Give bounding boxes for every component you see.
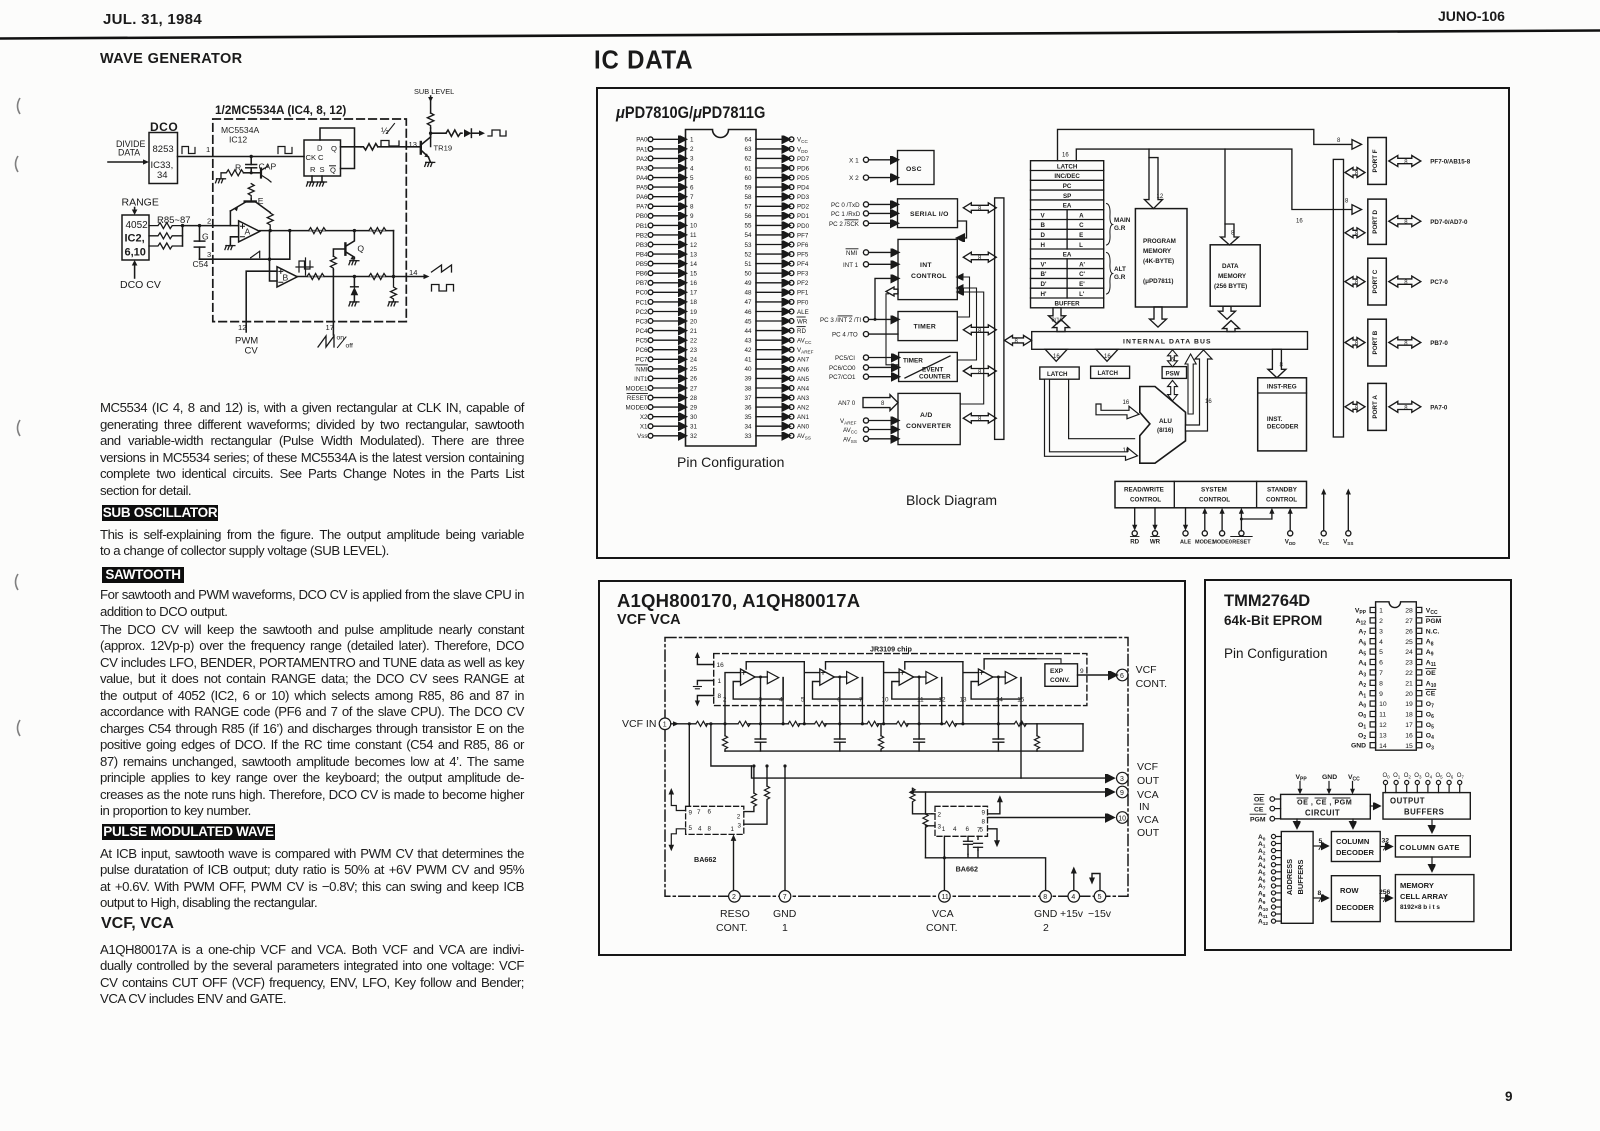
ground R S pins <box>307 176 327 186</box>
wire vca in line <box>911 791 1113 793</box>
pin 3 PA2 <box>636 156 694 163</box>
svg-text:14: 14 <box>409 268 417 277</box>
bus arrow to PORT C <box>1345 277 1365 287</box>
svg-text:2: 2 <box>207 217 211 226</box>
ladder shunt resistor 1 <box>722 724 727 751</box>
svg-text:CONTROL: CONTROL <box>1266 497 1297 504</box>
row decoder to memory arrow 256 <box>1379 889 1391 902</box>
svg-text:6: 6 <box>1120 673 1124 680</box>
svg-text:25: 25 <box>1405 639 1413 646</box>
svg-text:PORT F: PORT F <box>1372 149 1379 172</box>
latch1 wire mid <box>1069 379 1135 439</box>
svg-text:8: 8 <box>1404 280 1408 286</box>
svg-text:1: 1 <box>782 922 788 934</box>
pin circle 3 VCF OUT <box>1117 772 1129 784</box>
svg-text:SYSTEM: SYSTEM <box>1201 487 1227 494</box>
eprom pin 10 A0 <box>1358 701 1386 710</box>
svg-text:NMI: NMI <box>846 250 858 257</box>
svg-text:X 2: X 2 <box>849 175 859 182</box>
IC DATA heading <box>594 46 693 76</box>
svg-text:VCC: VCC <box>1318 539 1329 547</box>
PC0/TxD input <box>831 202 898 209</box>
wire vcf out line <box>752 766 1114 778</box>
svg-text:256: 256 <box>1379 889 1391 896</box>
svg-text:57: 57 <box>744 204 752 211</box>
resistor A out 1 <box>309 228 326 234</box>
svg-text:16: 16 <box>1104 354 1111 360</box>
left peripheral bus bar <box>995 198 1004 440</box>
resistor Q to opto <box>361 144 378 150</box>
wire Qbar feedback loop <box>320 128 355 169</box>
AVss input <box>843 436 898 444</box>
svg-text:PSW: PSW <box>1166 370 1180 377</box>
resistor E collector feedback <box>267 213 273 229</box>
stage 2 output column wire <box>861 678 864 726</box>
svg-text:10: 10 <box>882 697 890 704</box>
BA662 vca dashed box <box>935 806 988 836</box>
reso right resistor upper <box>744 766 757 812</box>
JR3109 pin numbers <box>723 697 1025 704</box>
svg-text:TIMER: TIMER <box>914 324 937 331</box>
square glyph after DCO <box>182 147 195 154</box>
pin circle 7 GND1 <box>779 891 791 903</box>
svg-text:PORT A: PORT A <box>1372 395 1379 419</box>
INT CONTROL box <box>898 239 957 299</box>
svg-text:PF6: PF6 <box>797 242 809 249</box>
sawtooth on-off glyph <box>318 335 353 350</box>
svg-text:39: 39 <box>744 376 752 383</box>
page number <box>1505 1089 1513 1104</box>
svg-text:3: 3 <box>759 697 763 704</box>
svg-text:INC/DEC: INC/DEC <box>1054 173 1080 180</box>
NMI input <box>846 249 898 257</box>
svg-text:14: 14 <box>1379 743 1387 750</box>
svg-text:12: 12 <box>238 323 246 332</box>
svg-text:V': V' <box>1041 261 1047 268</box>
svg-text:C: C <box>1079 222 1084 229</box>
svg-text:5: 5 <box>801 697 805 704</box>
eprom pin 7 A3 <box>1358 670 1383 679</box>
ladder series resistor 3 <box>788 721 800 726</box>
svg-text:ALU: ALU <box>1159 418 1172 425</box>
svg-text:PA4: PA4 <box>636 175 648 182</box>
svg-text:PB1: PB1 <box>636 223 648 230</box>
wire range arrow <box>132 208 138 216</box>
svg-text:DATA: DATA <box>1222 263 1239 270</box>
svg-text:PC3: PC3 <box>635 318 648 325</box>
svg-text:A: A <box>245 227 251 237</box>
control pin ALE <box>1180 508 1191 546</box>
svg-text:33: 33 <box>744 433 752 440</box>
pin circle 5 -15v <box>1094 891 1106 903</box>
svg-text:36: 36 <box>744 404 752 411</box>
svg-text:ADDRESS: ADDRESS <box>1285 859 1294 895</box>
pin 38 AN4 <box>744 385 809 392</box>
VCF IN pin circle 1 <box>659 718 671 730</box>
8 arrow into data memory <box>1221 224 1239 245</box>
svg-text:PC4: PC4 <box>635 328 648 335</box>
svg-text:PA0: PA0 <box>636 137 648 144</box>
header rule <box>0 0 1600 45</box>
svg-text:14: 14 <box>996 697 1004 704</box>
chip dash-dot boundary <box>665 638 1128 897</box>
svg-text:6: 6 <box>690 184 694 191</box>
svg-text:1: 1 <box>1379 608 1383 615</box>
eprom pin 8 A2 <box>1358 680 1383 689</box>
svg-text:PB7-0: PB7-0 <box>1430 340 1448 347</box>
12 arrow into program memory <box>1145 158 1164 209</box>
svg-text:O1: O1 <box>1358 722 1366 731</box>
svg-text:RESET: RESET <box>627 395 648 402</box>
COLUMN GATE box <box>1395 836 1470 857</box>
svg-text:PORT D: PORT D <box>1372 209 1379 233</box>
wave generator heading <box>100 51 243 67</box>
wire reset to standby <box>1240 508 1275 521</box>
pin 61 PD6 <box>744 165 809 172</box>
circuit to address buffers wire <box>1296 819 1298 828</box>
svg-text:VCC: VCC <box>1426 608 1438 617</box>
vca box left wires <box>926 814 936 826</box>
flip-flop pin labels <box>306 144 338 175</box>
label VCF CONT <box>1136 664 1168 690</box>
eprom pin 3 A7 <box>1358 628 1383 637</box>
external arrow PB7-0 <box>1389 337 1449 348</box>
svg-text:DECODER: DECODER <box>1336 903 1374 912</box>
svg-text:22: 22 <box>690 338 698 345</box>
svg-text:PD0: PD0 <box>797 223 810 230</box>
op-amp stage 1 <box>741 669 779 685</box>
svg-text:16: 16 <box>717 662 725 669</box>
svg-text:2: 2 <box>938 812 942 819</box>
stage 4 output column wire <box>1019 678 1022 726</box>
wire A output <box>260 230 394 232</box>
register row B/C <box>1031 220 1104 230</box>
svg-text:PF1: PF1 <box>797 290 809 297</box>
transistor Q <box>345 231 364 260</box>
wire dco cv arrow <box>132 260 138 278</box>
svg-text:GND: GND <box>1322 774 1337 781</box>
op-amp stage 2 <box>820 669 858 685</box>
svg-text:24: 24 <box>690 357 698 364</box>
node gnd1 top <box>783 764 786 767</box>
bus arrow to PORT F <box>1345 168 1365 178</box>
op-amp A <box>239 221 260 242</box>
svg-text:38: 38 <box>744 385 752 392</box>
svg-text:9: 9 <box>690 213 694 220</box>
pwm pulse glyph above B <box>296 258 313 275</box>
register row BUFFER <box>1031 298 1104 308</box>
svg-text:A10: A10 <box>1426 680 1437 689</box>
svg-text:O4: O4 <box>1426 732 1434 741</box>
svg-text:PA3: PA3 <box>636 165 648 172</box>
svg-text:8: 8 <box>978 370 982 376</box>
svg-text:8253: 8253 <box>153 144 174 155</box>
sub square wave glyph <box>488 130 506 136</box>
svg-text:62: 62 <box>744 156 752 163</box>
addr to row decoder arrow 8 <box>1313 890 1327 902</box>
eprom pin 22 OE <box>1405 669 1436 677</box>
reso arrows left <box>669 788 686 851</box>
svg-text:17: 17 <box>690 290 698 297</box>
stage 4 top wire to exp conv <box>984 659 1036 669</box>
bus link arrow to peripheral bus <box>1005 335 1032 345</box>
ladder shunt cap 2 <box>834 724 845 751</box>
svg-text:O3: O3 <box>1426 743 1434 752</box>
transistor E <box>230 196 270 213</box>
pin 23 PC6 <box>635 347 697 354</box>
svg-text:MEMORY: MEMORY <box>1400 881 1434 890</box>
bus arrow int <box>963 252 996 262</box>
pin 36 AN2 <box>744 404 809 411</box>
ladder shunt cap 3 <box>914 724 925 751</box>
control pin MODE1 <box>1195 508 1215 546</box>
svg-text:8: 8 <box>1379 680 1383 687</box>
wire event to int fat arrow <box>886 287 899 365</box>
ground TR19 emitter <box>425 162 435 166</box>
op-amp stage 3 <box>899 669 937 685</box>
pin 28 RESET <box>627 394 698 402</box>
capacitor C54 <box>194 226 209 260</box>
svg-text:PGM: PGM <box>1250 816 1266 823</box>
svg-text:PA7: PA7 <box>636 204 648 211</box>
wire serial to int <box>958 221 967 238</box>
op-amp stage 4 <box>978 669 1016 685</box>
svg-text:VAREF: VAREF <box>797 347 814 355</box>
TIMER box <box>898 312 957 341</box>
svg-text:8/16: 8/16 <box>1052 318 1063 324</box>
pin 16 stub <box>695 652 724 669</box>
svg-text:PF0: PF0 <box>797 299 809 306</box>
svg-text:8: 8 <box>1280 363 1284 369</box>
svg-text:ALE: ALE <box>1180 540 1191 546</box>
program memory to bus arrow <box>1150 307 1167 327</box>
node right column <box>392 275 395 278</box>
svg-text:15: 15 <box>690 271 698 278</box>
node pin3 crossing <box>268 258 271 261</box>
svg-text:CONV.: CONV. <box>1050 677 1070 684</box>
svg-text:9: 9 <box>1379 691 1383 698</box>
A/D CONVERTER box <box>898 393 960 444</box>
stage 2 mid column wire <box>838 676 841 726</box>
svg-text:−15v: −15v <box>1088 908 1112 920</box>
register row B'/C' <box>1031 269 1104 279</box>
pin 42 Varef <box>744 347 813 355</box>
address input A0 <box>1258 834 1281 843</box>
pin 52 PF5 <box>744 251 808 258</box>
output pin O4 <box>1425 773 1433 793</box>
svg-text:PD7: PD7 <box>797 156 810 163</box>
output buffers to column gate arrow <box>1431 819 1433 832</box>
svg-text:8: 8 <box>1404 160 1408 166</box>
svg-text:BA662: BA662 <box>956 865 978 874</box>
svg-text:PA1: PA1 <box>636 146 648 153</box>
svg-text:A5: A5 <box>1358 649 1366 658</box>
pin 1 stub <box>693 678 721 689</box>
svg-text:A2: A2 <box>1358 680 1366 689</box>
svg-text:9: 9 <box>689 810 693 817</box>
svg-text:COLUMN GATE: COLUMN GATE <box>1400 843 1460 852</box>
pin 17 PC0 <box>635 290 697 297</box>
BA662 resonance dashed box <box>686 806 744 834</box>
LDR half symbol <box>381 124 399 147</box>
node clock cap junction <box>250 155 253 158</box>
svg-text:BUFFERS: BUFFERS <box>1296 859 1305 894</box>
top wire latch to port f <box>1058 129 1362 160</box>
svg-text:VPP: VPP <box>1296 774 1308 783</box>
svg-text:3: 3 <box>1120 776 1124 783</box>
output pin O0 <box>1383 773 1391 793</box>
pin 60 PD5 <box>744 175 809 182</box>
stage 2 feed wire <box>803 662 820 726</box>
svg-text:8192×8 b i t s: 8192×8 b i t s <box>1400 904 1440 911</box>
internal data bus bar <box>1032 332 1308 350</box>
svg-text:STANDBY: STANDBY <box>1267 487 1298 494</box>
svg-text:8: 8 <box>690 204 694 211</box>
svg-text:2: 2 <box>737 814 741 821</box>
register row V/A <box>1031 210 1104 220</box>
vca caps <box>964 836 983 854</box>
svg-text:50: 50 <box>744 271 752 278</box>
address input A1 <box>1258 841 1281 850</box>
svg-text:A12: A12 <box>1356 618 1367 627</box>
register row EA <box>1031 200 1104 210</box>
svg-text:R: R <box>310 165 316 174</box>
latch2 16 arrow <box>1096 349 1118 361</box>
svg-text:58: 58 <box>744 194 752 201</box>
svg-text:LATCH: LATCH <box>1047 371 1068 378</box>
external arrow PD7-0/AD7-0 <box>1389 216 1468 227</box>
svg-text:PB0: PB0 <box>636 213 648 220</box>
PORT D box <box>1368 199 1387 244</box>
ladder main line <box>671 723 1083 725</box>
psw arrow to bus <box>1168 350 1178 367</box>
PORT B box <box>1368 319 1387 366</box>
svg-text:(μPD7811): (μPD7811) <box>1143 278 1173 285</box>
svg-text:BUFFERS: BUFFERS <box>1404 808 1444 817</box>
pin 51 PF4 <box>744 261 808 268</box>
psw box <box>1162 367 1186 379</box>
svg-text:16: 16 <box>1123 400 1130 406</box>
eprom block: VPP GND VCC labels <box>1296 774 1361 783</box>
svg-text:47: 47 <box>744 299 752 306</box>
address input A10 <box>1258 904 1281 913</box>
wire vca out line <box>988 817 1114 819</box>
svg-text:44: 44 <box>744 328 752 335</box>
SERIAL I/O box <box>898 199 958 228</box>
column decoder to gate arrow 32 <box>1380 838 1391 851</box>
wire E emitter to A input column <box>229 211 231 226</box>
pin 54 PF7 <box>744 232 808 239</box>
svg-text:O2: O2 <box>1358 732 1366 741</box>
svg-text:CELL ARRAY: CELL ARRAY <box>1400 892 1448 901</box>
sawtooth ramp glyph on pin3 <box>251 251 260 258</box>
svg-text:RESET: RESET <box>1232 540 1251 546</box>
svg-text:AVSS: AVSS <box>797 433 811 441</box>
square glyph at CK <box>278 147 292 154</box>
pin 56 PD1 <box>744 213 809 220</box>
svg-text:32: 32 <box>690 433 698 440</box>
svg-text:A9: A9 <box>1426 649 1434 658</box>
svg-text:JR3109 chip: JR3109 chip <box>870 645 913 654</box>
svg-text:15: 15 <box>1405 743 1413 750</box>
eprom pin 6 A4 <box>1358 659 1383 668</box>
svg-text:PC1: PC1 <box>635 299 648 306</box>
svg-text:A': A' <box>1079 261 1085 268</box>
svg-text:13: 13 <box>1379 732 1387 739</box>
svg-text:PC: PC <box>1063 183 1072 190</box>
PC4/TO input <box>832 332 898 339</box>
vca right down arrow <box>988 829 1000 848</box>
svg-text:18: 18 <box>690 299 698 306</box>
address input A3 <box>1258 855 1281 864</box>
pin circle 11 VCA CONT <box>939 891 951 903</box>
vca right up arrow <box>988 795 1003 814</box>
svg-text:H': H' <box>1041 291 1047 298</box>
address input A7 <box>1258 883 1281 892</box>
svg-text:23: 23 <box>1405 660 1413 667</box>
pin 11 PB2 <box>636 232 697 239</box>
label PWM CV <box>235 336 258 357</box>
pin 14 PB5 <box>636 261 698 268</box>
svg-text:OUT: OUT <box>1137 775 1160 787</box>
4052 selector box IC2 <box>122 215 149 260</box>
wire timer upper right <box>958 277 970 317</box>
wire reso cont pin <box>733 840 735 891</box>
svg-text:SP: SP <box>1063 193 1071 200</box>
svg-text:53: 53 <box>744 242 752 249</box>
OUTPUT BUFFERS box <box>1383 793 1470 820</box>
bus arrow event counter <box>963 366 996 376</box>
svg-text:AVSS: AVSS <box>843 436 857 444</box>
svg-text:N.C.: N.C. <box>1426 628 1440 635</box>
svg-text:OE: OE <box>1426 670 1436 677</box>
svg-text:B: B <box>283 273 289 283</box>
label DIVIDE DATA <box>116 139 145 158</box>
PGM input <box>1250 814 1281 823</box>
svg-text:A/D: A/D <box>920 412 933 419</box>
PC7/CO1 input <box>829 374 899 381</box>
svg-text:A0: A0 <box>1358 701 1366 710</box>
svg-text:59: 59 <box>744 184 752 191</box>
svg-text:15: 15 <box>1017 697 1025 704</box>
svg-text:56: 56 <box>744 213 752 220</box>
svg-text:6: 6 <box>966 826 970 833</box>
svg-text:CONT.: CONT. <box>926 922 958 934</box>
svg-text:40: 40 <box>744 366 752 373</box>
svg-text:2: 2 <box>732 894 736 901</box>
pin 16 PB7 <box>636 280 698 287</box>
svg-text:O7: O7 <box>1457 773 1465 779</box>
svg-text:O4: O4 <box>1425 773 1433 779</box>
ladder shunt resistor 2 <box>878 724 883 751</box>
TIMER/EVENT COUNTER box <box>899 352 958 381</box>
transistor TR19 <box>421 133 431 161</box>
svg-text:WR: WR <box>1150 539 1161 546</box>
left column body text <box>100 400 524 499</box>
svg-text:INT: INT <box>920 262 932 269</box>
svg-text:DECODER: DECODER <box>1267 423 1299 430</box>
svg-text:PF2: PF2 <box>797 280 809 287</box>
svg-text:(8/16): (8/16) <box>1157 427 1173 434</box>
svg-text:TR19: TR19 <box>434 144 453 153</box>
svg-text:READ/WRITE: READ/WRITE <box>1124 487 1164 494</box>
eprom pin 24 A9 <box>1405 649 1433 658</box>
ladder series resistor 6 <box>896 721 908 726</box>
svg-text:4: 4 <box>779 697 783 704</box>
svg-text:4: 4 <box>690 165 694 172</box>
svg-text:OE , CE , PGM: OE , CE , PGM <box>1297 798 1352 807</box>
svg-text:7: 7 <box>977 827 981 834</box>
